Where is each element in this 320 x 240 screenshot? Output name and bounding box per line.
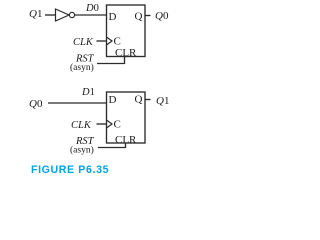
svg-text:Q0: Q0 (29, 98, 43, 110)
svg-text:Q0: Q0 (155, 10, 169, 22)
svg-text:(asyn): (asyn) (70, 62, 94, 73)
svg-text:CLK: CLK (73, 37, 94, 48)
svg-text:Q1: Q1 (29, 8, 42, 20)
svg-text:FIGURE P6.35: FIGURE P6.35 (31, 164, 109, 176)
svg-text:Q1: Q1 (156, 95, 169, 107)
svg-text:CLR: CLR (115, 134, 137, 146)
svg-text:CLK: CLK (71, 120, 92, 131)
svg-text:D: D (109, 94, 117, 106)
svg-text:D: D (109, 11, 117, 23)
svg-text:D0: D0 (85, 3, 99, 14)
svg-text:Q: Q (135, 94, 143, 106)
svg-text:Q: Q (135, 11, 143, 23)
svg-text:(asyn): (asyn) (70, 145, 94, 156)
svg-text:D1: D1 (81, 87, 95, 98)
svg-text:C: C (114, 119, 121, 131)
svg-text:C: C (114, 36, 121, 48)
svg-text:CLR: CLR (115, 47, 137, 59)
